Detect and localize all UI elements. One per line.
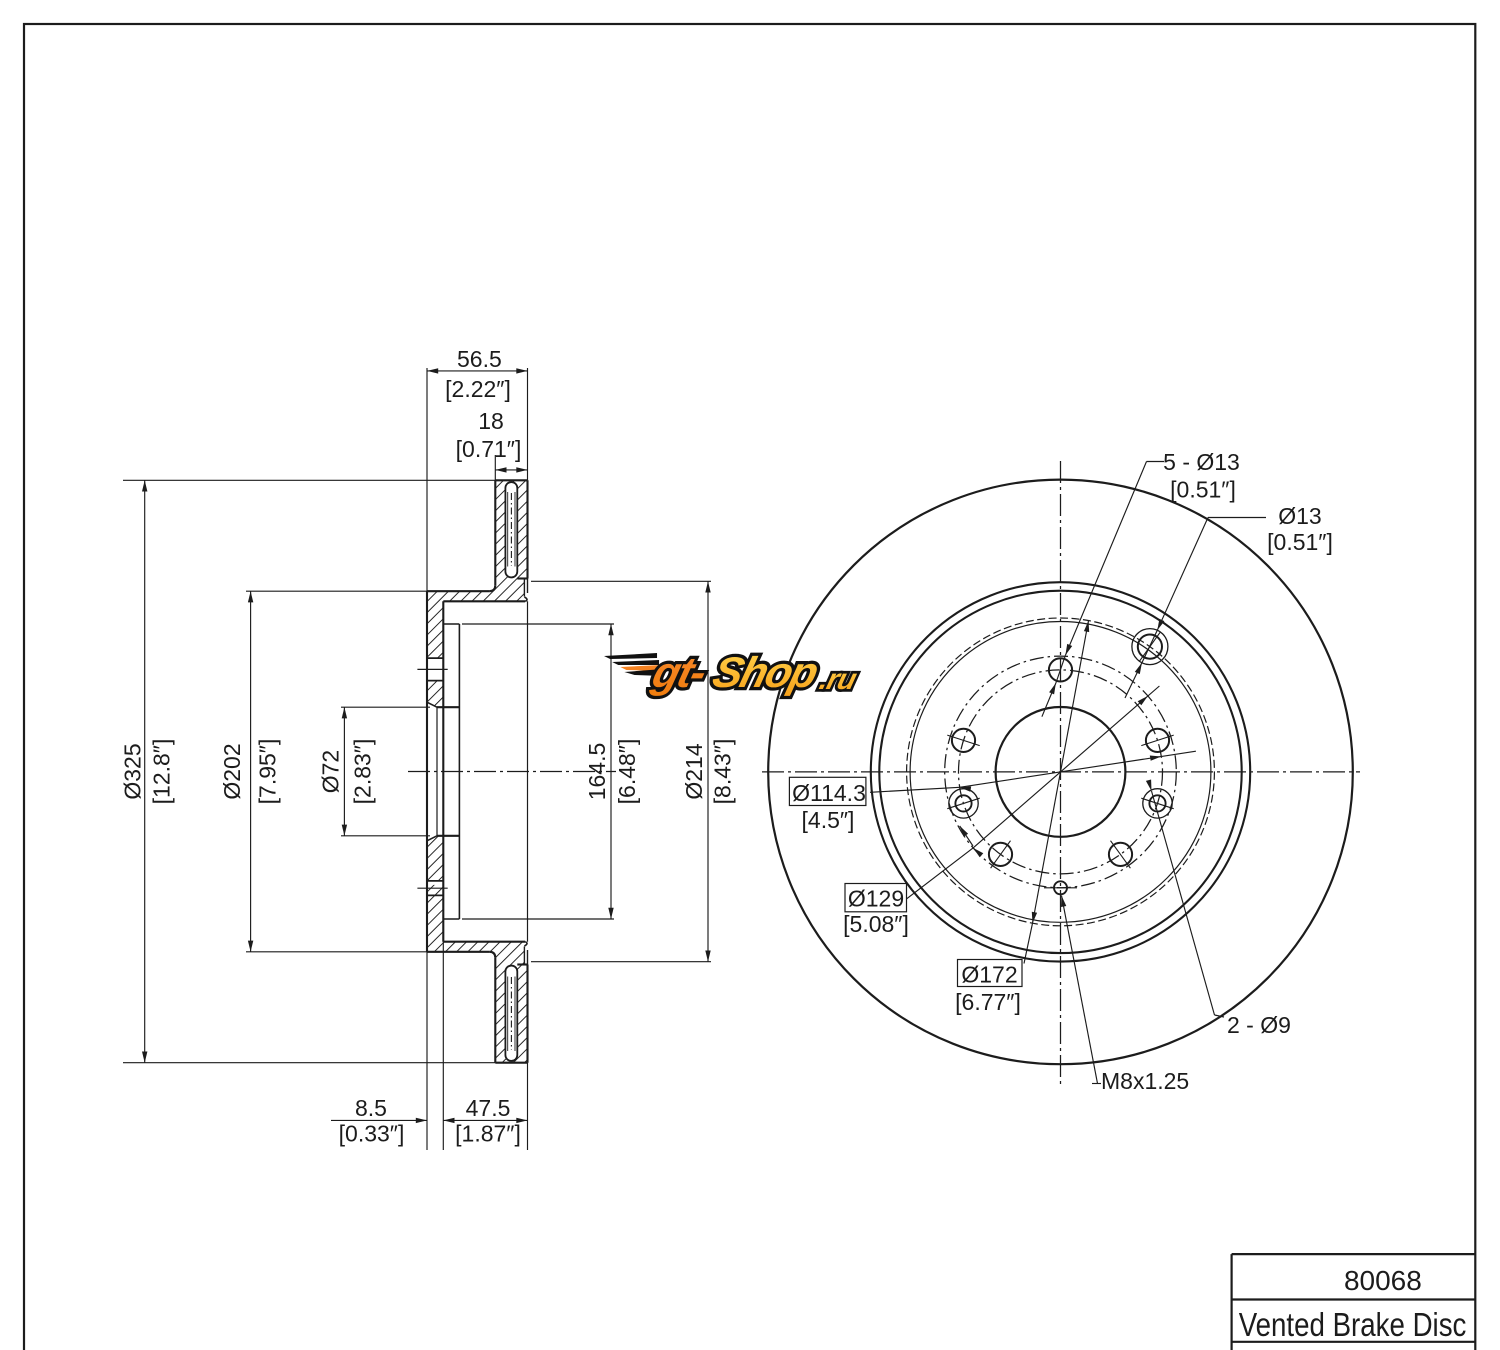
svg-text:Ø72: Ø72 — [318, 750, 344, 793]
leader 2-Ø9 second branch — [960, 826, 968, 837]
radial tick lug hole 18 deg — [1141, 735, 1173, 746]
radial tick hole on Ø172 — [1139, 632, 1160, 662]
screw hole Ø9 at 342 deg — [1149, 795, 1165, 811]
rotor right face — [526, 480, 528, 578]
dimension 18 — [495, 469, 527, 471]
flange M8 hole walls — [427, 880, 443, 882]
rotor right plate inner step bottom — [517, 963, 527, 965]
svg-text:[2.22″]: [2.22″] — [445, 376, 511, 402]
dimension extension line 18 — [494, 455, 496, 480]
dimension 164.5 — [610, 624, 612, 919]
lug hole Ø13 at 234 deg — [989, 843, 1012, 866]
rotor left plate outer face bottom — [494, 958, 496, 1063]
svg-text:[8.43″]: [8.43″] — [710, 739, 736, 805]
flange lug hole centerline — [417, 668, 447, 670]
rotor right plate inner step top — [517, 577, 527, 579]
rotor bottom face — [495, 1062, 527, 1064]
disc outer circle Ø325 — [768, 480, 1353, 1065]
label Ø114.3 — [789, 777, 866, 805]
svg-text:47.5: 47.5 — [466, 1095, 511, 1121]
svg-text:[0.51″]: [0.51″] — [1170, 477, 1236, 503]
svg-text:M8x1.25: M8x1.25 — [1101, 1068, 1189, 1094]
svg-text:Ø13: Ø13 — [1278, 503, 1321, 529]
flange M8 hole centerline — [417, 887, 447, 889]
svg-text:[0.71″]: [0.71″] — [456, 436, 522, 462]
section hatch flange mid pieces — [427, 681, 443, 708]
title block — [1232, 1253, 1476, 1255]
svg-text:56.5: 56.5 — [457, 346, 502, 372]
hole Ø13 on Ø172 circle — [1138, 635, 1162, 659]
lug hole Ø13 at 18 deg — [1146, 729, 1169, 752]
dimension extension lines 164.5 — [462, 623, 614, 625]
section hatch rotor and hat bottom half — [427, 885, 528, 1063]
lug hole Ø13 at 306 deg — [1109, 843, 1132, 866]
lug hole Ø13 at 90 deg — [1049, 658, 1072, 681]
rotor top face — [495, 479, 527, 481]
left view axis centerline — [408, 771, 616, 773]
dimension extension lines Ø214 — [531, 580, 711, 582]
label Ø172 — [958, 960, 1023, 987]
svg-text:8.5: 8.5 — [355, 1095, 387, 1121]
hat crown outer face top — [427, 590, 489, 592]
radial tick lug hole 306 deg — [1111, 841, 1131, 869]
radial tick lug hole 162 deg — [947, 735, 979, 746]
circle Ø202 — [879, 591, 1241, 953]
svg-text:[6.48″]: [6.48″] — [614, 739, 640, 805]
radial tick screw hole 342 deg — [1141, 798, 1173, 809]
circle Ø172 dashed — [907, 618, 1215, 926]
screw hole Ø9 at 198 deg — [955, 795, 971, 811]
radial tick lug hole 234 deg — [991, 841, 1011, 869]
leader 2-Ø9 — [1146, 780, 1152, 792]
svg-text:[2.83″]: [2.83″] — [350, 739, 376, 805]
dimension Ø202 — [250, 591, 252, 952]
center bore walls — [437, 706, 459, 708]
leader M8x1.25 — [1061, 896, 1066, 908]
svg-text:[0.51″]: [0.51″] — [1267, 529, 1333, 555]
svg-text:Vented Brake Disc: Vented Brake Disc — [1239, 1306, 1467, 1343]
dimension Ø214 — [707, 581, 709, 961]
dimension extension lines 56.5 — [426, 368, 428, 591]
M8 tapped hole — [1054, 881, 1067, 894]
bore entry chamfer — [427, 702, 437, 707]
flange lug hole walls — [427, 657, 443, 659]
vent slot inner wall projections — [507, 492, 509, 567]
svg-text:[6.77″]: [6.77″] — [955, 989, 1021, 1015]
radial tick screw hole 198 deg — [947, 798, 979, 809]
center bore circle Ø72 — [996, 707, 1126, 837]
svg-text:[5.08″]: [5.08″] — [843, 911, 909, 937]
svg-text:[0.33″]: [0.33″] — [339, 1121, 405, 1147]
svg-text:[12.8″]: [12.8″] — [149, 739, 175, 805]
vent slot top outline — [505, 482, 517, 577]
flange right face — [442, 601, 444, 941]
right view axis centerlines — [762, 771, 1360, 773]
svg-text:[7.95″]: [7.95″] — [255, 739, 281, 805]
svg-text:5 - Ø13: 5 - Ø13 — [1163, 449, 1240, 475]
svg-text:18: 18 — [478, 408, 504, 434]
bolt circle Ø129 — [945, 656, 1177, 888]
svg-text:Ø129: Ø129 — [848, 886, 904, 912]
circle Ø214 — [871, 582, 1250, 961]
gt-shop.ru watermark logo — [604, 649, 864, 697]
svg-text:2 - Ø9: 2 - Ø9 — [1227, 1012, 1291, 1038]
svg-text:Ø172: Ø172 — [961, 962, 1017, 988]
leader Ø13 — [1208, 517, 1266, 519]
dimension extension lines Ø72 — [341, 706, 430, 708]
lug hole Ø13 at 162 deg — [952, 729, 975, 752]
svg-text:Ø202: Ø202 — [219, 743, 245, 799]
hat inner edge projection — [527, 601, 529, 941]
dimension line Ø172 — [1024, 923, 1033, 963]
dimension extension lines bottom — [426, 952, 428, 1150]
svg-text:Ø214: Ø214 — [681, 743, 707, 799]
label Ø129 — [845, 884, 907, 912]
svg-text:[1.87″]: [1.87″] — [455, 1121, 521, 1147]
hat crown outer face bottom — [427, 951, 489, 953]
hat crown inner face bottom — [443, 941, 525, 943]
section hatch rotor and hat top half — [427, 480, 528, 658]
rotor left plate outer face top — [494, 480, 496, 585]
svg-text:Ø114.3: Ø114.3 — [792, 780, 866, 806]
dimension extension lines Ø202 — [246, 590, 427, 592]
svg-text:80068: 80068 — [1344, 1265, 1422, 1296]
svg-text:164.5: 164.5 — [584, 743, 610, 801]
dimension line Ø129 — [906, 848, 974, 900]
bolt circle Ø114.3 — [959, 670, 1163, 874]
vent slot bottom outline — [505, 966, 517, 1061]
dimension 47.5 — [443, 1119, 527, 1121]
dimension Ø72 — [343, 707, 345, 836]
vent slot centerlines — [510, 493, 512, 566]
circle Ø164.5 — [910, 622, 1211, 923]
svg-text:Ø325: Ø325 — [120, 743, 146, 799]
leader 5-Ø13 — [1147, 461, 1165, 463]
dimension extension lines Ø325 — [123, 479, 495, 481]
dimension line Ø114.3 — [870, 787, 960, 792]
dimension Ø325 — [144, 480, 146, 1062]
dimension 8.5 — [331, 1119, 427, 1121]
flange left face — [426, 591, 428, 952]
hat crown inner face top — [443, 600, 525, 602]
svg-text:[4.5″]: [4.5″] — [802, 807, 855, 833]
dimension 56.5 — [427, 370, 528, 372]
hub boss outline — [443, 623, 459, 625]
svg-text:Shop: Shop — [708, 649, 823, 697]
